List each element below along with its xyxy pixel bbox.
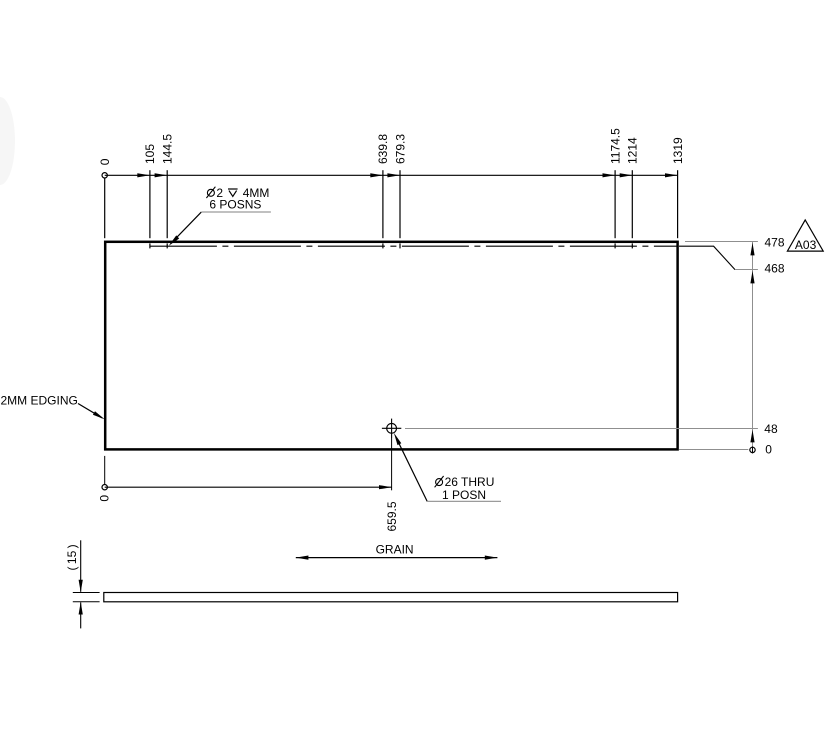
centerline cross tick 144.5 <box>166 243 168 248</box>
hole note underline <box>201 211 271 213</box>
edging leader <box>78 404 102 418</box>
hole 26 note underline <box>427 500 501 502</box>
svg-text:2MM EDGING: 2MM EDGING <box>1 394 78 408</box>
extension line 1174.5 <box>614 170 616 238</box>
depth symbol <box>228 189 238 196</box>
extension line 105 <box>149 170 151 238</box>
extension line 1319 <box>677 170 679 238</box>
top dimension line <box>105 174 678 176</box>
svg-text:1214: 1214 <box>626 137 640 164</box>
right origin circle stub <box>752 446 754 453</box>
extension line 1214 <box>631 170 633 238</box>
side dim line upper <box>80 540 82 592</box>
top origin circle <box>102 173 107 178</box>
hole centerline (dash-dot) <box>150 245 678 247</box>
side arrow up <box>79 602 83 615</box>
svg-text:0: 0 <box>98 158 112 165</box>
extension line 144.5 <box>166 170 168 238</box>
svg-text:0: 0 <box>765 443 772 457</box>
arrow at 1319 <box>665 173 678 177</box>
svg-text:468: 468 <box>765 262 785 276</box>
hole note leader <box>171 212 202 244</box>
centerline cross tick 1174.5 <box>614 243 616 248</box>
revision triangle A03 <box>787 220 823 251</box>
hole extension line down <box>391 438 393 490</box>
faint smudge left edge <box>0 97 15 185</box>
svg-text:0: 0 <box>98 495 112 502</box>
arrow at 144.5 <box>155 173 168 177</box>
svg-text:1 POSN: 1 POSN <box>442 488 486 502</box>
arrow at 1174.5 <box>603 173 616 177</box>
extension line 639.8 <box>382 170 384 238</box>
svg-text:639.8: 639.8 <box>376 134 390 164</box>
centerline cross tick 639.8 <box>382 243 384 248</box>
side dim line lower <box>80 602 82 628</box>
svg-text:GRAIN: GRAIN <box>376 542 414 556</box>
svg-text:A03: A03 <box>795 238 817 252</box>
edging leader arrow <box>93 411 105 419</box>
468 extension line <box>735 269 758 271</box>
right origin circle <box>750 447 755 452</box>
centerline cross tick 105 <box>149 243 151 248</box>
side extension tick bottom <box>73 601 100 603</box>
right vertical dimension line <box>752 242 754 447</box>
side view panel <box>104 593 678 602</box>
arrow up at 468 <box>750 271 754 284</box>
hole 26 leader <box>397 440 427 502</box>
arrow at 1214 <box>620 173 633 177</box>
bottom dimension line <box>105 486 392 488</box>
arrow up at 48 <box>750 430 754 443</box>
svg-text:659.5: 659.5 <box>385 501 399 531</box>
478 extension line <box>685 241 758 243</box>
svg-text:6 POSNS: 6 POSNS <box>209 197 261 211</box>
svg-text:1319: 1319 <box>671 137 685 164</box>
svg-text:48: 48 <box>764 422 778 436</box>
arrow at 639.8 <box>370 173 383 177</box>
centerline cross tick 679.3 <box>399 243 401 248</box>
arrow at 679.3 <box>387 173 400 177</box>
arrow at 105 <box>137 173 150 177</box>
extension line 0 left edge <box>104 178 106 238</box>
extension line 679.3 <box>399 170 401 238</box>
hole 26 THRU <box>382 419 401 438</box>
arrow up at 478 <box>750 243 754 256</box>
side arrow down <box>79 580 83 593</box>
svg-text:679.3: 679.3 <box>393 134 407 164</box>
grain arrow right <box>485 556 498 560</box>
svg-text:1174.5: 1174.5 <box>608 128 622 164</box>
svg-text:( 15 ): ( 15 ) <box>65 544 79 570</box>
48 extension line <box>405 428 758 430</box>
0 extension line right <box>679 449 748 451</box>
centerline extension to 468 ref <box>679 246 735 269</box>
centerline cross tick 1214 <box>631 243 633 248</box>
svg-text:105: 105 <box>143 144 157 164</box>
grain line <box>296 557 498 559</box>
diameter symbol (26 note) <box>435 476 444 487</box>
panel outline (plan view) <box>105 242 677 450</box>
hole note leader arrow <box>169 235 180 245</box>
side extension tick top <box>73 592 100 594</box>
bottom extension line 0 <box>104 456 106 485</box>
hole 26 leader arrow <box>394 433 401 445</box>
grain arrow left <box>296 556 309 560</box>
diameter symbol (hole note) <box>206 187 215 198</box>
svg-text:144.5: 144.5 <box>161 134 175 164</box>
bottom arrow 659.5 <box>379 485 392 489</box>
bottom origin circle <box>102 485 107 490</box>
svg-text:478: 478 <box>765 236 785 250</box>
